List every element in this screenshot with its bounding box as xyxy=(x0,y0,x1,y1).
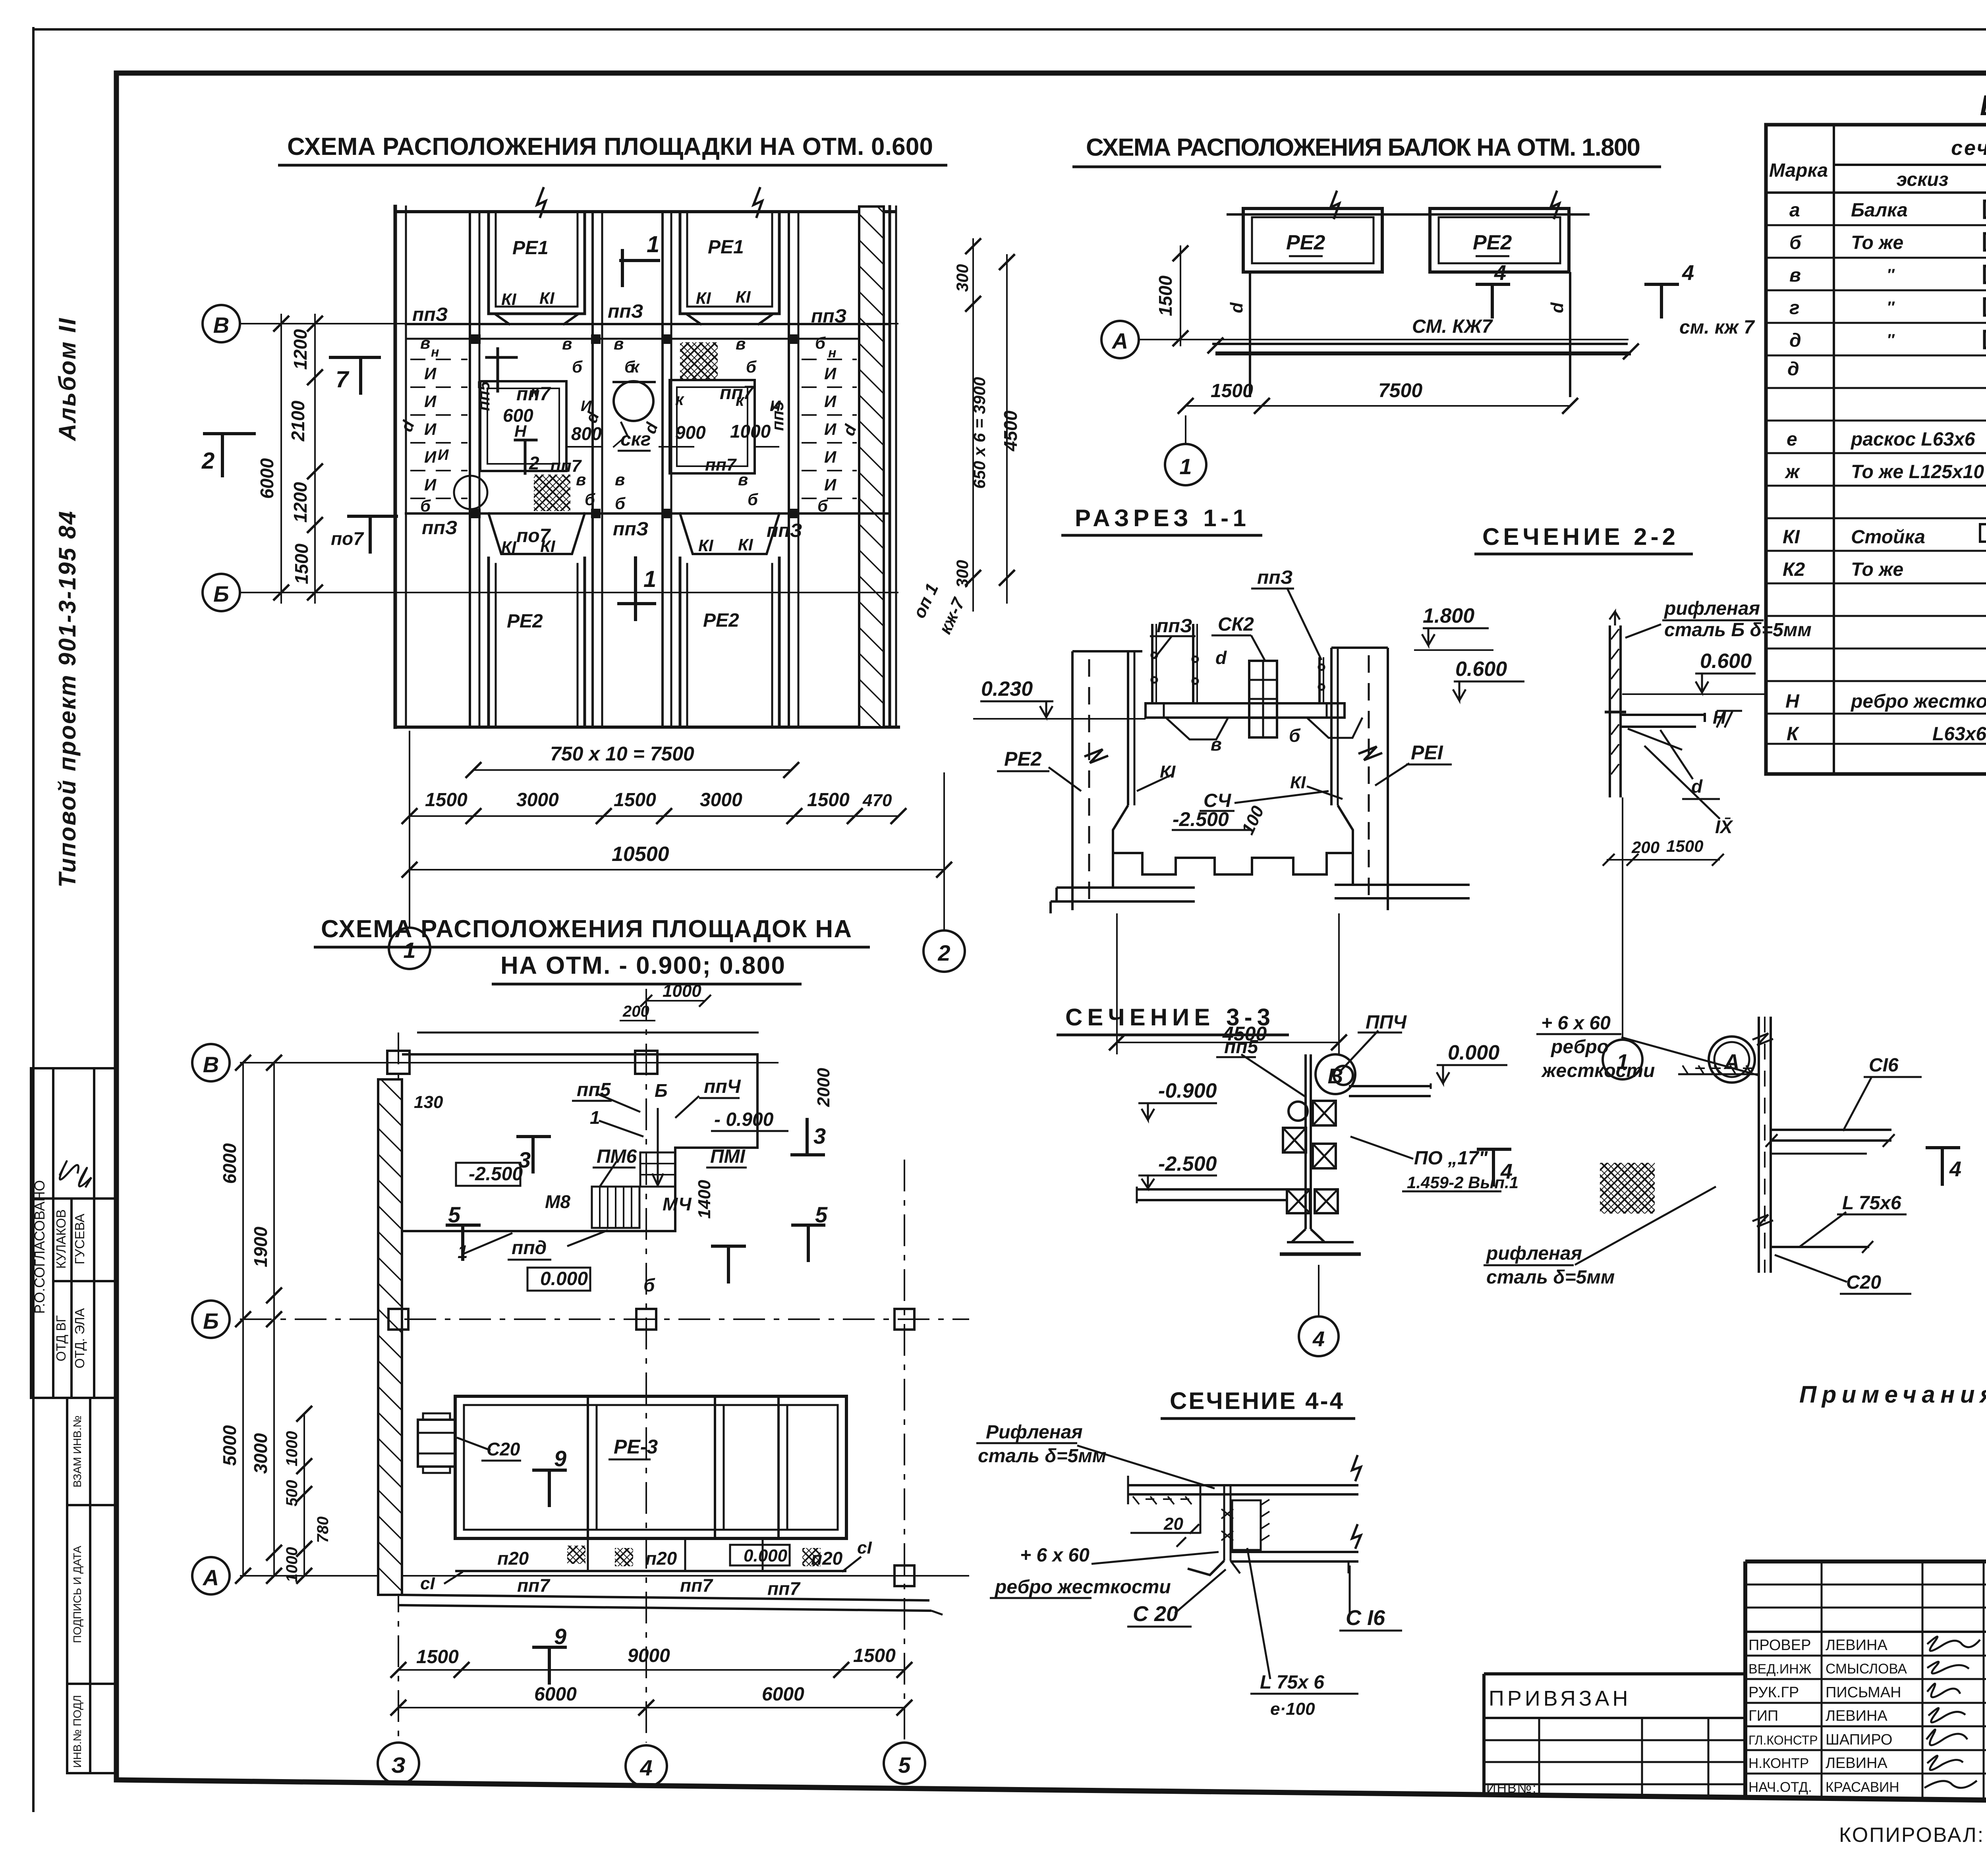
dashed texture left cell xyxy=(411,359,467,498)
svg-text:То же L125х10: То же L125х10 xyxy=(1851,461,1984,483)
svg-text:20: 20 xyxy=(1163,1514,1183,1534)
svg-text:Н: Н xyxy=(514,422,527,440)
table header text xyxy=(1769,136,1986,194)
svg-text:С I6: С I6 xyxy=(1346,1606,1385,1630)
svg-text:КУЛАКОВ: КУЛАКОВ xyxy=(54,1209,68,1269)
crosshatch patch lower xyxy=(534,475,570,511)
svg-text:И: И xyxy=(424,364,437,383)
svg-text:ВЗАМ ИНВ.№: ВЗАМ ИНВ.№ xyxy=(71,1415,83,1487)
svg-text:в: в xyxy=(576,470,586,489)
svg-text:3: 3 xyxy=(813,1123,826,1148)
long beam bottom xyxy=(399,1595,929,1600)
dim line 6000 xyxy=(280,314,282,604)
svg-text:СМЫСЛОВА: СМЫСЛОВА xyxy=(1826,1661,1907,1677)
svg-text:СХЕМА РАСПОЛОЖЕНИЯ ПЛОЩАДКИ НА: СХЕМА РАСПОЛОЖЕНИЯ ПЛОЩАДКИ НА ОТМ. 0.60… xyxy=(287,133,939,160)
svg-text:СЕЧЕНИЕ 2-2: СЕЧЕНИЕ 2-2 xyxy=(1482,523,1681,550)
svg-text:Б: Б xyxy=(203,1309,219,1334)
section mark 4 left xyxy=(1476,284,1510,318)
svg-text:1000: 1000 xyxy=(283,1547,301,1583)
svg-text:2100: 2100 xyxy=(288,400,308,442)
svg-text:0.600: 0.600 xyxy=(1455,658,1507,681)
section mark 7 upper xyxy=(330,357,379,393)
leaders xyxy=(1154,636,1172,658)
svg-text:ПРИВЯЗАН: ПРИВЯЗАН xyxy=(1489,1687,1631,1710)
break marks walls xyxy=(1084,749,1108,763)
svg-text:6000: 6000 xyxy=(219,1143,240,1184)
column 3-3 xyxy=(1304,1054,1307,1229)
svg-text:К: К xyxy=(1787,724,1800,745)
channel section glyphs xyxy=(1984,201,1986,218)
svg-text:б: б xyxy=(815,334,826,352)
svg-text:5000: 5000 xyxy=(219,1425,240,1466)
svg-text:б: б xyxy=(817,496,828,515)
beam arm C16 xyxy=(1771,1129,1891,1131)
top line with breaks xyxy=(1227,213,1590,216)
svg-text:ппЗ: ппЗ xyxy=(608,301,643,322)
svg-text:в: в xyxy=(1789,265,1801,286)
svg-text:Стойка: Стойка xyxy=(1851,527,1925,548)
svg-text:пп7: пп7 xyxy=(517,1575,551,1596)
svg-text:ГУСЕВА: ГУСЕВА xyxy=(72,1214,87,1264)
svg-text:е: е xyxy=(1787,429,1797,450)
svg-text:ΙX̄: ΙX̄ xyxy=(1715,816,1733,837)
outer border left xyxy=(32,28,35,1811)
svg-text:ИНВ.№ ПОДЛ: ИНВ.№ ПОДЛ xyxy=(71,1695,83,1768)
svg-text:КI: КI xyxy=(1290,773,1306,792)
svg-text:-2.500: -2.500 xyxy=(1158,1152,1217,1175)
svg-text:сечение: сечение xyxy=(1951,137,1986,160)
right dim chain 1 xyxy=(972,238,974,612)
hatched wall plan2 xyxy=(378,1079,402,1595)
signature squiggles in left stamp xyxy=(60,1161,79,1179)
svg-text:СХЕМА РАСПОЛОЖЕНИЯ БАЛОК НА ОТ: СХЕМА РАСПОЛОЖЕНИЯ БАЛОК НА ОТМ. 1.800 xyxy=(1086,134,1646,161)
svg-text:пп5: пп5 xyxy=(577,1079,611,1100)
svg-text:5: 5 xyxy=(448,1202,461,1227)
svg-text:200: 200 xyxy=(1631,838,1660,857)
leaders detail xyxy=(1843,1077,1872,1131)
PE1 bay inner U right xyxy=(680,212,779,314)
svg-text:КI: КI xyxy=(501,290,517,309)
PE2 bay inner U right xyxy=(680,558,779,727)
dim chain left xyxy=(314,314,316,604)
C20 attachment left xyxy=(418,1420,455,1467)
axis circle 1 (sech 2-2) xyxy=(1603,1040,1642,1079)
svg-text:650 х 6 = 3900: 650 х 6 = 3900 xyxy=(970,377,989,488)
svg-text:800: 800 xyxy=(571,423,602,444)
svg-text:н: н xyxy=(828,345,837,361)
svg-text:″: ″ xyxy=(1887,266,1895,284)
svg-text:ВЕД.ИНЖ: ВЕД.ИНЖ xyxy=(1748,1662,1811,1677)
svg-text:5: 5 xyxy=(815,1202,828,1227)
svg-text:4: 4 xyxy=(1500,1160,1513,1183)
svg-text:300: 300 xyxy=(953,264,972,292)
svg-text:2000: 2000 xyxy=(814,1068,833,1107)
leaders s33 xyxy=(1241,1054,1306,1097)
svg-text:РЕ1: РЕ1 xyxy=(512,237,549,259)
right base slab xyxy=(1335,885,1470,898)
svg-text:1: 1 xyxy=(643,566,656,592)
svg-text:2: 2 xyxy=(937,940,950,965)
beam xyxy=(1212,343,1628,345)
outer border top xyxy=(33,28,1986,31)
svg-text:СМ. КЖ7: СМ. КЖ7 xyxy=(1412,316,1493,337)
svg-text:ПРОВЕР: ПРОВЕР xyxy=(1748,1637,1811,1654)
svg-text:И: И xyxy=(824,392,837,411)
svg-text:500: 500 xyxy=(283,1480,301,1507)
vert dim 1500 xyxy=(1180,245,1181,346)
svg-text:В: В xyxy=(213,313,229,338)
-2.500 underline xyxy=(1172,829,1252,831)
svg-text:РЕ2: РЕ2 xyxy=(1004,748,1042,770)
leaders C20/C1 xyxy=(457,1438,491,1450)
svg-text:СК2: СК2 xyxy=(1218,614,1254,635)
axis circle B xyxy=(203,305,240,342)
axis circle Б xyxy=(203,574,240,611)
svg-text:к: к xyxy=(675,390,684,409)
section mark 6 xyxy=(711,1246,746,1283)
svg-text:пп7: пп7 xyxy=(767,1578,801,1599)
svg-text:сI: сI xyxy=(420,1574,435,1593)
K1 trapezoid bottom A xyxy=(489,513,585,554)
pp3 posts xyxy=(1151,624,1153,703)
svg-text:РЕ2: РЕ2 xyxy=(703,610,739,631)
svg-text:б: б xyxy=(1289,725,1301,746)
svg-text:раскос L63х6: раскос L63х6 xyxy=(1850,429,1975,450)
svg-text:3000: 3000 xyxy=(516,789,559,811)
break marks wall xyxy=(1752,1033,1773,1045)
svg-text:+ 6 х 60: + 6 х 60 xyxy=(1541,1013,1611,1034)
svg-text:-2.500: -2.500 xyxy=(469,1164,523,1185)
svg-text:см. кж 7: см. кж 7 xyxy=(1679,317,1755,338)
cross braced boxes xyxy=(1313,1101,1336,1125)
svg-text:СI6: СI6 xyxy=(1869,1055,1899,1076)
riffled column xyxy=(1609,625,1611,797)
left stamp СОГЛАСОВАНО xyxy=(31,1068,116,1398)
svg-text:1.800: 1.800 xyxy=(1423,604,1474,627)
wall lines xyxy=(1758,1017,1760,1273)
svg-text:0.600: 0.600 xyxy=(1700,650,1752,673)
svg-text:НАЧ.ОТД.: НАЧ.ОТД. xyxy=(1748,1779,1812,1795)
svg-text:И: И xyxy=(824,448,837,466)
svg-text:в: в xyxy=(615,470,625,489)
crosshatch patch upper xyxy=(680,342,718,379)
section mark 1 top xyxy=(621,251,659,286)
crosshatch patch wall xyxy=(1600,1163,1655,1214)
svg-text:d: d xyxy=(1227,302,1246,313)
svg-text:300: 300 xyxy=(953,560,972,588)
svg-text:d: d xyxy=(1691,776,1703,797)
left plate 4-4 xyxy=(1200,1485,1202,1534)
bottom row p20 xyxy=(455,1570,846,1572)
svg-text:1500: 1500 xyxy=(853,1645,896,1666)
svg-text:КI: КI xyxy=(501,538,517,556)
svg-text:сталь δ=5мм: сталь δ=5мм xyxy=(1486,1267,1615,1288)
bottom dims plan2 xyxy=(398,1669,904,1671)
axis circle 1 xyxy=(389,928,430,969)
svg-text:-0.900: -0.900 xyxy=(1158,1079,1217,1102)
svg-text:СХЕМА РАСПОЛОЖЕНИЯ ПЛОЩАДОК: СХЕМА РАСПОЛОЖЕНИЯ ПЛОЩАДОК НА xyxy=(321,915,857,943)
level 0.230 xyxy=(980,701,1053,703)
svg-text:ПОДПИСЬ И ДАТА: ПОДПИСЬ И ДАТА xyxy=(71,1546,83,1643)
K1 trapezoid B top xyxy=(687,315,772,324)
svg-text:″: ″ xyxy=(1887,299,1895,316)
svg-text:1500: 1500 xyxy=(1155,275,1176,316)
signature squiggles xyxy=(1924,1637,1980,1788)
svg-text:б: б xyxy=(585,490,595,509)
svg-text:750 х 10 = 7500: 750 х 10 = 7500 xyxy=(550,743,694,765)
CK2 ladder xyxy=(1249,661,1277,737)
-2.500 box xyxy=(456,1163,520,1186)
svg-text:И: И xyxy=(438,447,449,463)
svg-text:МЧ: МЧ xyxy=(663,1194,692,1214)
svg-text:ребро жесткости: ребро жесткости xyxy=(1850,691,1986,712)
svg-text:КI: КI xyxy=(1783,527,1801,548)
svg-text:КОПИРОВАЛ: КОРШУНОВА: КОПИРОВАЛ: КОРШУНОВА xyxy=(1839,1824,1986,1847)
svg-text:КI: КI xyxy=(698,536,714,555)
K1 trapezoid A top xyxy=(496,315,578,324)
verticals to axis circles xyxy=(409,731,410,928)
svg-text:п20: п20 xyxy=(645,1548,677,1569)
svg-text:е·100: е·100 xyxy=(1270,1699,1315,1719)
axis circle 1 (beams) xyxy=(1165,444,1206,485)
svg-text:1000: 1000 xyxy=(663,981,701,1001)
column continuation to circle xyxy=(1622,797,1623,1040)
svg-text:1500: 1500 xyxy=(425,789,468,811)
svg-text:То же: То же xyxy=(1851,559,1903,580)
section mark 9 xyxy=(532,1470,567,1507)
upper platform outline xyxy=(417,1032,759,1034)
axis circle B (razrez) xyxy=(1316,1054,1355,1094)
right wall PE1 xyxy=(1387,648,1389,910)
data row lines xyxy=(1766,224,1986,226)
svg-text:б: б xyxy=(615,494,626,513)
svg-text:1900: 1900 xyxy=(250,1226,271,1267)
dims 200 1500 xyxy=(1607,859,1720,861)
leaders 4-4 xyxy=(1077,1446,1215,1488)
svg-text:б: б xyxy=(572,357,583,376)
svg-text:ппЗ: ппЗ xyxy=(1157,616,1192,637)
trapezoid legs xyxy=(1166,718,1228,739)
table column lines xyxy=(1833,125,1835,774)
svg-text:То же: То же xyxy=(1851,232,1903,253)
svg-text:1500: 1500 xyxy=(291,543,312,584)
rollers xyxy=(1334,1066,1353,1085)
level 0.000 s33 xyxy=(1437,1064,1507,1066)
svg-text:4: 4 xyxy=(1494,261,1506,285)
bottom chain xyxy=(410,815,898,817)
svg-text:И: И xyxy=(424,392,437,411)
svg-text:М8: М8 xyxy=(545,1191,570,1212)
level -2.500 s33 xyxy=(1138,1175,1217,1177)
svg-text:1000: 1000 xyxy=(730,421,771,442)
svg-text:Н.КОНТР: Н.КОНТР xyxy=(1748,1756,1809,1771)
svg-text:РЕ1: РЕ1 xyxy=(708,237,744,258)
svg-text:КI: КI xyxy=(539,289,555,307)
svg-text:ЛЕВИНА: ЛЕВИНА xyxy=(1826,1755,1887,1772)
svg-text:2: 2 xyxy=(529,453,539,473)
svg-text:1200: 1200 xyxy=(290,329,311,370)
level 0.600 xyxy=(1454,681,1524,683)
svg-text:Б: Б xyxy=(213,581,229,606)
section marks 5 xyxy=(446,1225,481,1261)
svg-text:Н: Н xyxy=(1713,707,1726,728)
svg-text:9: 9 xyxy=(554,1446,566,1471)
break mark top 2 xyxy=(753,188,762,217)
svg-text:Типовой проект 901-3-195 84: Типовой проект 901-3-195 84 xyxy=(54,510,81,888)
svg-text:б: б xyxy=(420,496,431,515)
svg-text:И: И xyxy=(424,475,437,494)
band lines xyxy=(406,323,890,325)
bottom dim xyxy=(1186,405,1570,407)
H mark xyxy=(1717,711,1742,728)
dim 4500 xyxy=(1117,1042,1339,1043)
axis lines plan2 xyxy=(240,1062,779,1063)
svg-text:ГИП: ГИП xyxy=(1748,1708,1778,1724)
svg-text:1500: 1500 xyxy=(807,789,850,811)
svg-text:И: И xyxy=(581,398,592,415)
svg-text:И: И xyxy=(824,364,837,383)
interior column line 4 xyxy=(788,212,790,727)
svg-text:б: б xyxy=(1789,232,1802,253)
svg-text:НА ОТМ. - 0.900; 0.800: НА ОТМ. - 0.900; 0.800 xyxy=(500,952,790,979)
svg-text:Ведомость элементов: Ведомость элементов xyxy=(1980,90,1986,122)
svg-text:ПМI: ПМI xyxy=(710,1146,746,1167)
svg-text:б: б xyxy=(643,1275,655,1295)
svg-text:ППЧ: ППЧ xyxy=(1366,1012,1407,1033)
ground line w/ hatch ticks xyxy=(1678,1073,1759,1075)
table data xyxy=(1783,199,1986,745)
circle CK2 xyxy=(614,381,653,421)
svg-text:А: А xyxy=(202,1565,219,1590)
small circle left xyxy=(454,476,487,509)
left floor -2.500 xyxy=(1137,1188,1287,1191)
svg-text:к: к xyxy=(631,357,640,376)
svg-text:0.230: 0.230 xyxy=(981,677,1033,701)
svg-text:д: д xyxy=(1789,330,1801,351)
interior column line 3 xyxy=(661,212,664,727)
svg-text:1500: 1500 xyxy=(416,1646,459,1668)
svg-text:4: 4 xyxy=(1682,261,1694,285)
svg-text:ИНВ№:: ИНВ№: xyxy=(1486,1781,1537,1796)
svg-text:780: 780 xyxy=(314,1517,332,1543)
lower arm xyxy=(1771,1246,1869,1248)
svg-text:ЛЕВИНА: ЛЕВИНА xyxy=(1826,1637,1887,1654)
svg-text:кж-7: кж-7 xyxy=(935,594,969,637)
svg-text:10500: 10500 xyxy=(612,843,669,866)
section mark 4 (cut line) xyxy=(1477,1149,1511,1187)
svg-text:7500: 7500 xyxy=(1378,379,1422,401)
level 0.600 s22 xyxy=(1695,673,1756,675)
svg-text:И: И xyxy=(824,475,837,494)
signature table text xyxy=(1748,1637,1907,1795)
svg-text:100: 100 xyxy=(1238,803,1268,838)
svg-text:С20: С20 xyxy=(487,1439,520,1459)
svg-text:пп7: пп7 xyxy=(680,1575,713,1596)
attachment table left xyxy=(1484,1674,1745,1795)
svg-text:пп7: пп7 xyxy=(705,455,737,475)
stoyka square glyph xyxy=(1980,524,1986,542)
svg-text:РЕ-3: РЕ-3 xyxy=(614,1436,658,1458)
L angle foot xyxy=(1188,1561,1224,1575)
svg-text:4: 4 xyxy=(639,1755,652,1780)
section mark 7 lower xyxy=(349,516,396,552)
svg-text:6000: 6000 xyxy=(534,1684,577,1705)
section mark 7 inner xyxy=(487,349,516,391)
svg-text:+ 6 х 60: + 6 х 60 xyxy=(1020,1545,1090,1566)
svg-text:ппЧ: ппЧ xyxy=(704,1076,741,1097)
svg-text:L63х6: L63х6 xyxy=(1932,724,1986,745)
svg-text:сI: сI xyxy=(857,1538,872,1558)
middle verticals xyxy=(1223,1485,1225,1561)
svg-text:Марка: Марка xyxy=(1769,160,1828,181)
svg-text:ЛЕВИНА: ЛЕВИНА xyxy=(1826,1708,1887,1724)
PE2 box left xyxy=(1243,208,1382,272)
svg-text:С 20: С 20 xyxy=(1133,1602,1178,1626)
svg-text:РЕI: РЕI xyxy=(1411,741,1443,764)
plan left wall xyxy=(394,207,397,727)
svg-text:в: в xyxy=(562,334,572,353)
svg-text:Р.О.СОГЛАСОВАНО: Р.О.СОГЛАСОВАНО xyxy=(31,1180,48,1314)
hanging verticals d xyxy=(1249,272,1251,397)
svg-text:″: ″ xyxy=(1887,331,1895,349)
svg-text:ж: ж xyxy=(1784,461,1801,483)
svg-text:в: в xyxy=(420,334,430,352)
section mark 4 right xyxy=(1644,284,1679,318)
junction plates xyxy=(471,334,798,518)
PE1 bay inner U left xyxy=(489,212,585,314)
PE-3 block xyxy=(455,1396,846,1538)
svg-text:жесткости: жесткости xyxy=(1541,1060,1655,1081)
svg-text:к: к xyxy=(736,391,745,409)
svg-text:5: 5 xyxy=(898,1752,911,1778)
svg-text:С20: С20 xyxy=(1846,1272,1881,1293)
foundation steps xyxy=(1113,830,1353,874)
svg-text:1400: 1400 xyxy=(695,1180,714,1219)
column squares xyxy=(387,1051,410,1074)
svg-text:Н: Н xyxy=(1785,691,1800,712)
deck 4-4 xyxy=(1128,1484,1358,1486)
platform beam xyxy=(1146,703,1345,718)
svg-text:ПО „17": ПО „17" xyxy=(1414,1148,1488,1169)
svg-text:в: в xyxy=(1211,734,1222,755)
svg-text:КРАСАВИН: КРАСАВИН xyxy=(1826,1779,1899,1795)
svg-text:ОТД. ЭЛА: ОТД. ЭЛА xyxy=(72,1308,87,1368)
plate rect xyxy=(1232,1500,1261,1550)
axis circle A xyxy=(1101,321,1139,358)
right hatched wall xyxy=(859,207,884,727)
svg-text:А: А xyxy=(1111,328,1128,353)
svg-text:КI: КI xyxy=(736,288,751,306)
svg-text:ПМ6: ПМ6 xyxy=(597,1146,637,1167)
svg-text:ппд: ппд xyxy=(512,1237,547,1258)
svg-text:0.000: 0.000 xyxy=(540,1268,588,1289)
20 dim ticks xyxy=(1177,1524,1199,1547)
PE2 bay inner U left xyxy=(489,558,585,727)
svg-text:И: И xyxy=(424,420,437,438)
plan 0.600 axes and dimensions xyxy=(203,238,1015,972)
svg-text:9000: 9000 xyxy=(628,1645,670,1666)
svg-text:0.000: 0.000 xyxy=(1448,1041,1499,1064)
PE2 box right xyxy=(1430,208,1569,272)
svg-text:И: И xyxy=(824,420,837,438)
table outer xyxy=(1766,125,1986,774)
svg-text:КI: КI xyxy=(1160,762,1176,782)
svg-text:1: 1 xyxy=(1179,454,1192,479)
top small dims xyxy=(646,1000,705,1002)
svg-text:КI: КI xyxy=(540,537,556,556)
svg-text:6000: 6000 xyxy=(762,1684,804,1705)
left stamp ИНВ block xyxy=(67,1398,116,1773)
